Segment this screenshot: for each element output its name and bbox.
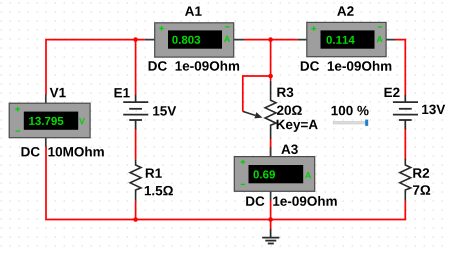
value label 7Ohm [413, 185, 430, 194]
ammeter A1 [145, 23, 244, 57]
value label 1.5Ohm [145, 186, 173, 196]
wire E2 minus to R2 [404, 129, 406, 160]
battery E2 [393, 95, 418, 129]
wire top rail middle (A1- to A2+) [244, 39, 298, 41]
potentiometer R3 [243, 81, 276, 139]
value label DC 1e-09Ohm (A2) [301, 61, 392, 71]
label E1 [115, 88, 130, 97]
value label 13V [422, 105, 445, 115]
node junction top E1 [133, 37, 138, 42]
node junction pot wiper T [268, 74, 273, 79]
slider percent label 100 % [332, 106, 369, 116]
label E2 [385, 88, 400, 97]
resistor R1 [130, 159, 141, 201]
wire R1 to bottom rail [135, 201, 137, 220]
wire E1 branch from top rail [135, 40, 137, 95]
wire R3 bottom to A3 [270, 139, 272, 157]
node junction top mid [268, 37, 273, 42]
slider handle [365, 120, 368, 126]
label R1 [146, 169, 162, 178]
value label DC 1e-09Ohm (A3) [246, 196, 337, 206]
node junction bottom ground [268, 217, 273, 222]
label A3 [281, 145, 298, 155]
label R2 [413, 168, 429, 177]
slider track [333, 122, 365, 125]
resistor R2 [400, 159, 411, 201]
ammeter A2 [298, 22, 396, 56]
wire mid branch from top rail to pot node [270, 40, 272, 81]
wire pot wiper loop [243, 76, 271, 112]
label V1 [50, 88, 66, 97]
voltmeter V1 [9, 95, 90, 148]
wire E1 minus to R1 [135, 129, 137, 159]
ground [262, 229, 279, 244]
label R3 [277, 88, 293, 98]
battery E1 [123, 95, 148, 129]
wire top rail left (node V1+ / E1+ / A1+) [46, 40, 145, 95]
wire top rail right (A2- to E2+) [396, 40, 406, 95]
wire bottom rail (V1- / R1 / ground / R2) [46, 147, 405, 220]
node junction bottom R1 [133, 217, 138, 222]
wire A3 bottom to rail and ground [270, 200, 272, 229]
label A1 [185, 7, 202, 16]
ammeter A3 [234, 147, 314, 200]
label A2 [337, 6, 353, 15]
value label DC 10MOhm [22, 147, 104, 157]
value label DC 1e-09Ohm (A1) [149, 61, 240, 71]
value label Key=A [277, 120, 318, 132]
value label 20Ohm [277, 106, 302, 116]
value label 15V [153, 106, 176, 115]
